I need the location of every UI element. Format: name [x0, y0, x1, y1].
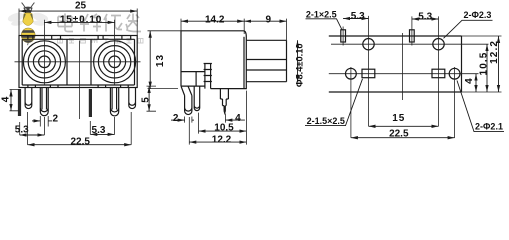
svg-text:2-1.5×2.5: 2-1.5×2.5 — [307, 116, 345, 126]
jack J2 circles — [94, 41, 136, 83]
J1 top notches — [28, 36, 61, 40]
svg-text:14.2: 14.2 — [205, 14, 225, 25]
pin P1 flat — [18, 89, 21, 116]
hole H3 phi2.1 — [346, 68, 357, 79]
svg-text:Φ8.4±0.10: Φ8.4±0.10 — [294, 43, 304, 87]
center axis — [402, 33, 404, 100]
svg-text:12.2: 12.2 — [212, 135, 232, 146]
front body rect — [19, 36, 137, 88]
J2 top notches — [98, 36, 131, 40]
vertical centerline c1 — [368, 38, 370, 126]
slot S3 1.5x2.5 — [362, 69, 375, 78]
footprint bottom edge — [329, 91, 462, 93]
slot S1 1x2.5 — [341, 30, 346, 42]
svg-text:5.3: 5.3 — [418, 12, 432, 23]
side body bottom-left edge — [181, 72, 205, 87]
pin second — [194, 86, 200, 111]
pin P2 small round — [25, 88, 32, 109]
slot S4 1.5x2.5 — [432, 69, 445, 78]
hole row centerline top — [331, 43, 489, 45]
jack J1 circles — [23, 41, 65, 83]
svg-text:15±0.10: 15±0.10 — [60, 15, 102, 26]
hole row centerline middle — [329, 73, 479, 75]
svg-text:2: 2 — [53, 113, 59, 124]
J2 vertical centerline — [114, 39, 116, 85]
svg-text:2-Φ2.3: 2-Φ2.3 — [463, 10, 491, 20]
svg-text:22.5: 22.5 — [70, 137, 90, 148]
bee logo head — [23, 7, 32, 15]
side flange line — [243, 37, 245, 89]
watermark small text (vector marks) — [58, 39, 144, 44]
svg-text:10.5: 10.5 — [478, 52, 489, 76]
svg-text:13: 13 — [155, 54, 166, 67]
svg-text:2: 2 — [173, 113, 179, 124]
J1 bottom notches — [28, 85, 58, 88]
bottom edge extension — [462, 91, 502, 93]
J2 bottom notches — [98, 85, 128, 88]
front face tab stack — [204, 64, 212, 89]
footprint right edge — [461, 36, 463, 92]
inner frame verticals — [22, 39, 134, 85]
svg-text:5.3: 5.3 — [351, 11, 365, 22]
barrel — [246, 40, 286, 81]
barrel inner lines — [246, 60, 286, 71]
side internal line — [181, 71, 205, 73]
center axis below — [79, 41, 81, 120]
pin P4 flat — [89, 89, 92, 117]
svg-text:9: 9 — [266, 14, 272, 25]
bee logo antennae — [22, 3, 35, 8]
J1 vertical centerline — [43, 39, 45, 85]
vertical centerline c3 — [350, 67, 352, 138]
bee logo wings — [7, 11, 49, 26]
hole H1 phi2.3 — [363, 39, 374, 50]
watermark big text (vector strokes) — [58, 14, 141, 32]
svg-text:4: 4 — [464, 77, 475, 84]
hole H4 phi2.1 — [449, 68, 460, 79]
pin P3 wide — [40, 88, 48, 116]
svg-text:5: 5 — [140, 96, 151, 103]
bee logo abdomen — [21, 28, 35, 43]
vertical centerline c4 — [454, 67, 456, 138]
pin P5 wide — [110, 88, 118, 116]
svg-text:25: 25 — [75, 1, 87, 12]
dimension phi 8.4 — [297, 40, 299, 81]
bee logo thorax — [23, 13, 33, 26]
svg-text:5.3: 5.3 — [15, 125, 29, 136]
vertical centerline c2 — [438, 38, 440, 126]
bent ground pin — [181, 86, 192, 114]
svg-text:10.5: 10.5 — [214, 123, 234, 134]
inner frame horizontals — [22, 39, 134, 85]
svg-text:4: 4 — [235, 113, 241, 124]
top edge extension — [462, 35, 502, 37]
footprint top edge — [329, 35, 462, 37]
svg-text:2-Φ2.1: 2-Φ2.1 — [475, 121, 503, 131]
svg-text:15: 15 — [392, 113, 405, 124]
hole H2 phi2.3 — [433, 39, 444, 50]
side body outline — [181, 31, 246, 89]
pin P6 small round — [129, 88, 136, 109]
slot S2 1x2.5 — [410, 30, 415, 42]
svg-text:2-1×2.5: 2-1×2.5 — [306, 9, 337, 19]
svg-text:4: 4 — [0, 96, 11, 103]
signal pin stepped — [220, 89, 228, 113]
horizontal centerline — [15, 61, 141, 63]
